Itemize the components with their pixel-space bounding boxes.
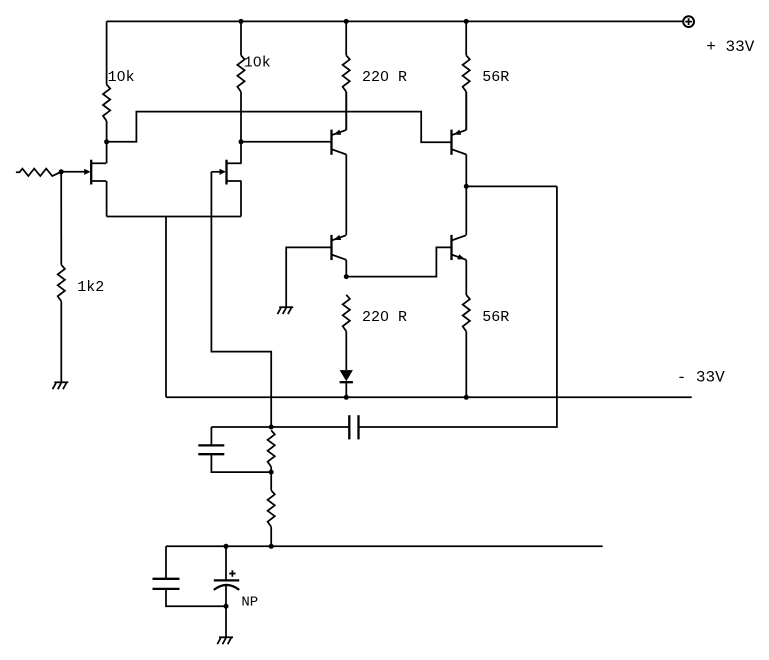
diode D1 — [340, 370, 353, 381]
node: C4 top — [224, 544, 229, 549]
node: rail/R2 junction — [239, 19, 244, 24]
capacitor C4 plus sign — [229, 570, 235, 576]
wire Q2 collector down — [465, 155, 467, 235]
wire common source line — [107, 216, 241, 218]
wire Q2 emitter up — [465, 92, 467, 130]
jfet source lead — [227, 180, 242, 182]
node C: Q3 collector / R6 / Q4 base wire — [344, 274, 349, 279]
resistor R3 220R top — [345, 21, 347, 55]
node: rail/R4 junction — [464, 19, 469, 24]
node: J1 drain / R1 — [104, 139, 109, 144]
wire J2 drain up to node — [240, 142, 242, 164]
bjt bottom lead — [452, 255, 467, 260]
wire Q4 emitter down to R8 — [465, 260, 467, 295]
ground G1 — [54, 381, 68, 383]
capacitor C3 — [153, 578, 180, 580]
bjt bottom lead — [332, 149, 347, 154]
node: rail/R3 junction — [344, 19, 349, 24]
svg-text:+ 33V: + 33V — [706, 38, 754, 56]
resistor R5 1k2 — [60, 172, 62, 265]
node: R6b / bottom rail — [269, 544, 274, 549]
bjt bar — [330, 235, 332, 260]
pnp emitter arrow — [454, 130, 462, 135]
node: feedback top — [269, 425, 274, 430]
svg-text:220 R: 220 R — [362, 69, 407, 86]
resistor R6b feedback — [270, 472, 272, 490]
capacitor C2 coupling — [357, 415, 359, 439]
bjt bar — [330, 130, 332, 155]
+33V terminal — [683, 16, 694, 27]
top supply rail wire — [107, 20, 684, 22]
capacitor C4 electrolytic — [214, 579, 239, 581]
npn emitter arrow — [457, 254, 465, 259]
capacitor C4 electrolytic top lead — [225, 546, 227, 580]
resistor R2 10k — [240, 21, 242, 55]
wire tail to negative rail — [165, 217, 167, 398]
bjt bottom lead — [452, 149, 467, 154]
resistor R7 220R bottom — [343, 295, 350, 332]
svg-text:NP: NP — [241, 594, 258, 610]
input squiggle — [16, 169, 61, 176]
wire Q3 base to ground — [286, 247, 331, 307]
node: output junction — [464, 184, 469, 189]
wire node B: J2 drain to Q1 base — [241, 141, 332, 143]
jfet gate wire+arrow — [211, 171, 222, 173]
ground G3 — [219, 636, 233, 638]
wire J1 source down — [106, 181, 108, 217]
zero dot patches — [120, 74, 123, 77]
svg-text:1k2: 1k2 — [77, 279, 104, 296]
svg-text:10k: 10k — [244, 55, 271, 72]
bjt bottom lead — [332, 255, 347, 260]
negative supply rail — [166, 396, 692, 398]
svg-text:220 R: 220 R — [362, 309, 407, 326]
capacitor C3 leads — [165, 546, 167, 579]
wire feedback from J2 gate — [211, 172, 271, 427]
resistor R6a feedback — [268, 430, 275, 467]
wire output to right column — [466, 185, 557, 187]
node: D1 / negative rail — [344, 395, 349, 400]
wire J2 source down — [240, 181, 242, 217]
wire node A: J1 drain to Q2 base jog — [107, 112, 452, 143]
bjt bar — [450, 235, 452, 260]
svg-text:- 33V: - 33V — [677, 368, 725, 386]
wire R8 to rail — [465, 332, 467, 398]
bjt bar — [450, 130, 452, 155]
svg-text:56R: 56R — [482, 309, 509, 326]
wire Q1 emitter up — [345, 92, 347, 130]
jfet drain lead — [227, 162, 242, 164]
capacitor C1 — [198, 444, 224, 446]
wire Q1 collector down — [345, 155, 347, 235]
wire Q3 collector to node C — [345, 260, 347, 277]
jfet drain lead — [91, 162, 106, 164]
svg-text:10k: 10k — [108, 69, 135, 86]
resistor R8 56R bottom — [463, 295, 470, 332]
node: feedback mid — [269, 470, 274, 475]
jfet bar — [225, 160, 227, 185]
wire output drop — [359, 186, 557, 427]
pnp emitter arrow — [334, 235, 342, 240]
bjt top lead — [452, 235, 467, 240]
wire C1 top lead — [210, 427, 212, 445]
wire R7 to diode — [345, 331, 347, 370]
node: input / gate / R5 — [59, 169, 64, 174]
wire Q4 base jog from node C — [346, 247, 451, 276]
bjt top lead — [452, 130, 467, 135]
jfet gate wire+arrow — [61, 171, 87, 173]
bottom rail wire — [166, 545, 603, 547]
wire J1 drain up to node — [106, 142, 108, 164]
ground G2 — [279, 306, 293, 308]
node: ground node — [224, 604, 229, 609]
bjt top lead — [332, 235, 347, 240]
pnp emitter arrow — [334, 130, 342, 135]
jfet bar — [90, 160, 92, 185]
node: J2 drain / R2 — [239, 139, 244, 144]
svg-text:56R: 56R — [482, 69, 509, 86]
resistor R1 10k — [106, 21, 108, 84]
wire C4 bottom — [225, 585, 227, 637]
jfet source lead — [91, 180, 106, 182]
node: R8 / negative rail — [464, 395, 469, 400]
resistor R4 56R top — [465, 21, 467, 55]
bjt top lead — [332, 130, 347, 135]
